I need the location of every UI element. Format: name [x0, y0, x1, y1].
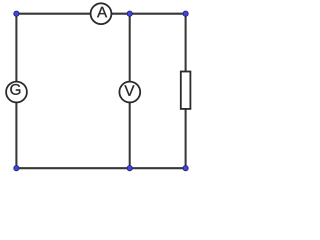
voltmeter V — [119, 82, 140, 103]
node bottom-middle — [127, 166, 132, 171]
node top-right — [183, 11, 188, 16]
resistor R — [181, 72, 191, 109]
node bottom-left — [14, 166, 19, 171]
ammeter A — [91, 3, 112, 24]
wire left — [15, 14, 17, 169]
node bottom-right — [183, 166, 188, 171]
generator G — [6, 82, 27, 103]
wire right — [185, 14, 187, 169]
node top-middle — [127, 11, 132, 16]
wire top — [16, 13, 185, 15]
node top-left — [14, 11, 19, 16]
wire middle — [129, 14, 131, 169]
wire bottom — [16, 167, 185, 169]
